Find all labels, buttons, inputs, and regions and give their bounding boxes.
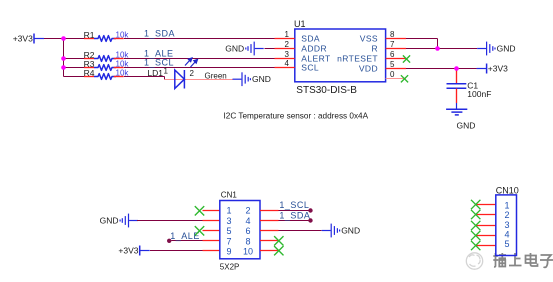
svg-text:2: 2 [504, 210, 509, 220]
svg-text:4: 4 [285, 59, 290, 68]
svg-text:2: 2 [190, 69, 195, 78]
svg-text:1_SDA: 1_SDA [144, 29, 175, 39]
svg-text:2: 2 [285, 40, 290, 49]
svg-text:STS30-DIS-B: STS30-DIS-B [296, 85, 357, 96]
svg-text:1: 1 [226, 206, 231, 216]
svg-text:2: 2 [245, 206, 250, 216]
svg-text:3: 3 [285, 50, 290, 59]
svg-text:0: 0 [390, 70, 395, 79]
svg-text:9: 9 [226, 247, 231, 257]
svg-text:U1: U1 [294, 19, 306, 29]
svg-text:1: 1 [504, 200, 509, 210]
svg-text:1_ALE: 1_ALE [170, 231, 200, 241]
svg-text:8: 8 [245, 236, 250, 246]
svg-text:5: 5 [226, 226, 231, 236]
svg-text:SDA: SDA [301, 34, 320, 44]
svg-text:1_SCL: 1_SCL [144, 58, 174, 68]
svg-text:1: 1 [164, 66, 169, 75]
svg-text:4: 4 [504, 230, 509, 240]
svg-text:ADDR: ADDR [301, 44, 327, 54]
svg-text:7: 7 [226, 236, 231, 246]
svg-text:6: 6 [390, 50, 395, 59]
svg-text:10k: 10k [116, 69, 130, 78]
svg-text:10k: 10k [116, 60, 130, 69]
svg-text:5: 5 [504, 239, 509, 249]
svg-text:7: 7 [390, 40, 395, 49]
svg-text:VSS: VSS [360, 34, 378, 44]
svg-text:VDD: VDD [359, 64, 378, 74]
svg-text:10: 10 [243, 247, 253, 257]
svg-text:5X2P: 5X2P [220, 263, 240, 272]
svg-text:GND: GND [456, 120, 475, 130]
svg-text:R4: R4 [84, 68, 95, 78]
svg-text:1_SCL: 1_SCL [279, 200, 309, 210]
svg-text:Green: Green [205, 72, 227, 81]
svg-text:3: 3 [504, 220, 509, 230]
svg-text:LD1: LD1 [147, 68, 163, 78]
svg-text:100nF: 100nF [467, 89, 491, 99]
svg-text:SCL: SCL [301, 63, 319, 73]
svg-text:I2C Temperature sensor : addre: I2C Temperature sensor : address 0x4A [224, 112, 369, 121]
svg-text:5: 5 [390, 60, 395, 69]
svg-text:4: 4 [245, 216, 250, 226]
svg-text:10k: 10k [116, 51, 130, 60]
svg-text:R1: R1 [84, 30, 95, 40]
svg-text:6: 6 [245, 226, 250, 236]
svg-text:1: 1 [285, 30, 290, 39]
svg-text:R: R [371, 44, 378, 54]
svg-text:3: 3 [226, 216, 231, 226]
svg-text:CN1: CN1 [221, 191, 238, 200]
svg-text:nRTESET: nRTESET [337, 54, 378, 64]
svg-text:1_SDA: 1_SDA [279, 211, 310, 221]
svg-text:CN10: CN10 [496, 186, 519, 196]
svg-text:8: 8 [390, 30, 395, 39]
svg-text:10k: 10k [116, 31, 130, 40]
